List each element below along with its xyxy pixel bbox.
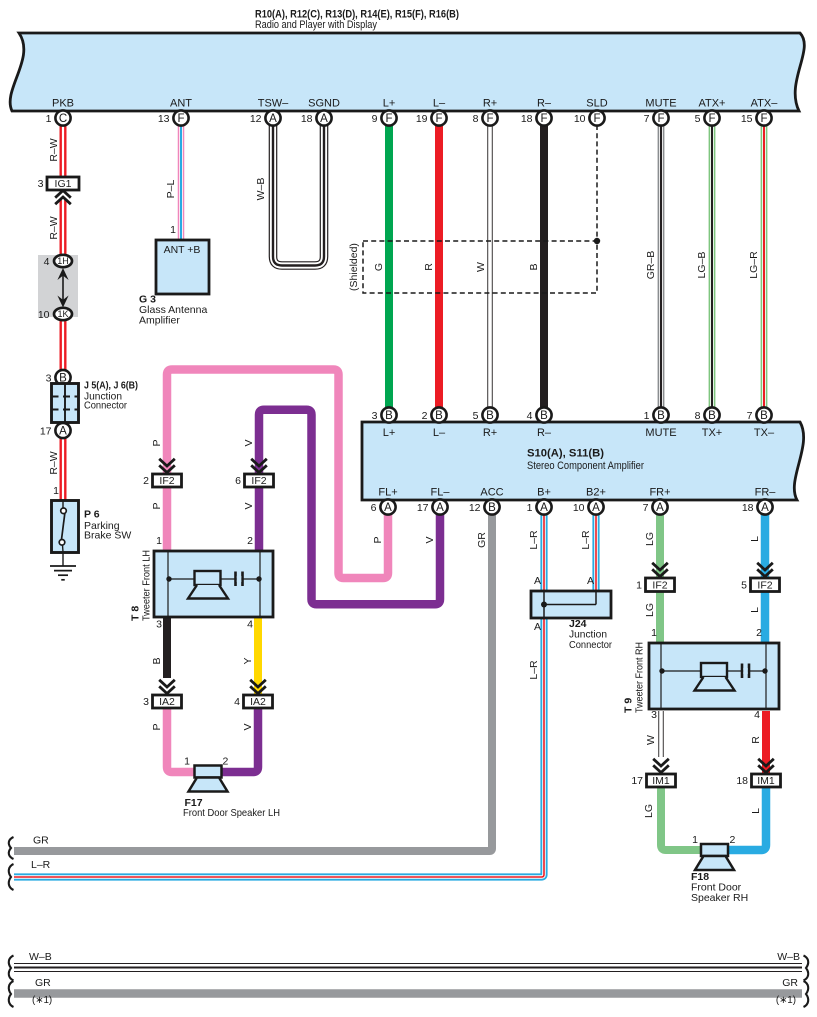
svg-text:G: G xyxy=(373,263,385,271)
svg-text:SLD: SLD xyxy=(586,98,607,110)
svg-text:5: 5 xyxy=(473,410,479,422)
svg-text:Amplifier: Amplifier xyxy=(139,315,180,327)
svg-text:12: 12 xyxy=(469,502,481,514)
svg-text:B: B xyxy=(435,410,443,422)
svg-text:IF2: IF2 xyxy=(652,580,667,592)
svg-text:18: 18 xyxy=(301,113,313,125)
svg-text:IM1: IM1 xyxy=(652,775,670,787)
svg-text:13: 13 xyxy=(158,113,170,125)
svg-text:GR: GR xyxy=(476,532,488,548)
svg-text:L–: L– xyxy=(433,427,446,439)
svg-text:6: 6 xyxy=(371,502,377,514)
svg-text:3: 3 xyxy=(38,178,44,190)
svg-text:TSW–: TSW– xyxy=(258,98,289,110)
svg-text:IF2: IF2 xyxy=(757,580,772,592)
svg-text:LG: LG xyxy=(644,532,656,546)
svg-text:19: 19 xyxy=(416,113,428,125)
svg-text:P: P xyxy=(151,723,163,730)
svg-text:10: 10 xyxy=(38,309,50,321)
svg-text:A: A xyxy=(534,575,541,587)
svg-text:10: 10 xyxy=(574,113,586,125)
svg-text:LG–B: LG–B xyxy=(696,252,708,279)
svg-text:FR–: FR– xyxy=(755,487,777,499)
svg-text:P: P xyxy=(151,439,163,446)
svg-text:FL+: FL+ xyxy=(378,487,397,499)
svg-text:B: B xyxy=(488,502,496,514)
svg-text:W–B: W–B xyxy=(777,951,800,963)
svg-text:R–: R– xyxy=(537,427,552,439)
svg-text:R–: R– xyxy=(537,98,552,110)
svg-text:2: 2 xyxy=(730,834,736,846)
svg-text:3: 3 xyxy=(651,709,657,721)
svg-text:V: V xyxy=(243,502,255,509)
svg-text:TX–: TX– xyxy=(754,427,775,439)
svg-text:SGND: SGND xyxy=(308,98,340,110)
svg-text:P 6: P 6 xyxy=(84,509,100,521)
svg-text:Radio and Player with Display: Radio and Player with Display xyxy=(255,19,377,31)
svg-text:P–L: P–L xyxy=(165,180,177,199)
svg-text:(∗1): (∗1) xyxy=(776,995,796,1006)
svg-text:Front Door Speaker LH: Front Door Speaker LH xyxy=(183,807,280,819)
svg-text:8: 8 xyxy=(473,113,479,125)
svg-text:1: 1 xyxy=(692,834,698,846)
svg-text:B: B xyxy=(540,410,548,422)
svg-text:ACC: ACC xyxy=(480,487,503,499)
svg-text:Brake SW: Brake SW xyxy=(84,530,131,542)
svg-text:F: F xyxy=(760,113,767,125)
svg-text:F: F xyxy=(593,113,600,125)
svg-text:2: 2 xyxy=(756,627,762,639)
svg-text:R–W: R–W xyxy=(48,451,60,474)
svg-text:Stereo Component Amplifier: Stereo Component Amplifier xyxy=(527,460,644,472)
svg-text:4: 4 xyxy=(247,619,253,631)
svg-text:F: F xyxy=(177,113,184,125)
svg-text:IM1: IM1 xyxy=(757,775,775,787)
svg-text:L+: L+ xyxy=(383,427,396,439)
svg-text:A: A xyxy=(587,575,594,587)
svg-text:1K: 1K xyxy=(57,309,68,319)
svg-text:L–R: L–R xyxy=(528,660,540,680)
svg-text:V: V xyxy=(242,723,254,730)
svg-text:L–: L– xyxy=(433,98,446,110)
svg-text:F: F xyxy=(385,113,392,125)
svg-text:17: 17 xyxy=(417,502,429,514)
svg-text:4: 4 xyxy=(44,256,50,268)
svg-text:15: 15 xyxy=(741,113,753,125)
svg-text:L: L xyxy=(749,536,761,542)
svg-text:A: A xyxy=(761,502,769,514)
svg-text:IG1: IG1 xyxy=(55,178,72,190)
svg-text:ATX+: ATX+ xyxy=(698,98,725,110)
svg-text:A: A xyxy=(592,502,600,514)
svg-text:IF2: IF2 xyxy=(251,475,266,487)
svg-text:7: 7 xyxy=(747,410,753,422)
svg-text:18: 18 xyxy=(736,775,748,787)
svg-text:GR–B: GR–B xyxy=(645,251,657,280)
svg-text:IF2: IF2 xyxy=(159,475,174,487)
svg-text:4: 4 xyxy=(527,410,533,422)
svg-text:A: A xyxy=(320,113,328,125)
svg-text:L+: L+ xyxy=(383,98,396,110)
svg-text:B: B xyxy=(486,410,494,422)
svg-text:GR: GR xyxy=(35,977,51,989)
svg-text:6: 6 xyxy=(235,475,241,487)
svg-text:17: 17 xyxy=(40,425,52,437)
svg-text:8: 8 xyxy=(695,410,701,422)
svg-text:B: B xyxy=(657,410,665,422)
svg-text:MUTE: MUTE xyxy=(645,98,676,110)
svg-text:B: B xyxy=(151,657,163,664)
svg-text:MUTE: MUTE xyxy=(645,427,676,439)
svg-text:1: 1 xyxy=(184,756,190,768)
svg-text:7: 7 xyxy=(644,113,650,125)
svg-text:IA2: IA2 xyxy=(250,696,266,708)
svg-text:9: 9 xyxy=(372,113,378,125)
svg-text:A: A xyxy=(436,502,444,514)
svg-text:ANT: ANT xyxy=(170,98,192,110)
svg-text:GR: GR xyxy=(33,835,49,847)
svg-text:LG: LG xyxy=(644,603,656,617)
svg-text:W: W xyxy=(645,735,657,745)
svg-text:GR: GR xyxy=(782,977,798,989)
svg-text:IA2: IA2 xyxy=(159,696,175,708)
svg-text:ANT +B: ANT +B xyxy=(164,244,201,256)
svg-text:1: 1 xyxy=(636,580,642,592)
svg-text:ATX–: ATX– xyxy=(751,98,779,110)
svg-text:F: F xyxy=(708,113,715,125)
svg-text:18: 18 xyxy=(521,113,533,125)
svg-text:B2+: B2+ xyxy=(586,487,606,499)
svg-text:L–R: L–R xyxy=(31,859,51,871)
svg-text:L–R: L–R xyxy=(528,530,540,550)
svg-text:V: V xyxy=(424,536,436,543)
svg-text:10: 10 xyxy=(573,502,585,514)
svg-text:B: B xyxy=(708,410,716,422)
svg-text:A: A xyxy=(384,502,392,514)
svg-text:1H: 1H xyxy=(57,256,69,266)
svg-text:A: A xyxy=(656,502,664,514)
svg-text:1: 1 xyxy=(170,224,176,236)
svg-text:2: 2 xyxy=(143,475,149,487)
svg-text:(∗1): (∗1) xyxy=(32,995,52,1006)
svg-text:L: L xyxy=(750,808,762,814)
svg-text:F: F xyxy=(486,113,493,125)
svg-text:1: 1 xyxy=(527,502,533,514)
svg-text:B: B xyxy=(760,410,768,422)
svg-text:A: A xyxy=(59,426,67,438)
svg-text:FR+: FR+ xyxy=(649,487,670,499)
svg-text:4: 4 xyxy=(234,696,240,708)
svg-text:Connector: Connector xyxy=(84,400,127,412)
svg-text:A: A xyxy=(540,502,548,514)
svg-text:F: F xyxy=(657,113,664,125)
svg-text:1: 1 xyxy=(651,627,657,639)
svg-text:B+: B+ xyxy=(537,487,551,499)
svg-text:Speaker RH: Speaker RH xyxy=(691,892,748,904)
svg-text:S10(A), S11(B): S10(A), S11(B) xyxy=(527,448,604,460)
svg-text:2: 2 xyxy=(422,410,428,422)
svg-text:V: V xyxy=(243,439,255,446)
svg-text:W: W xyxy=(475,262,487,272)
svg-text:P: P xyxy=(151,502,163,509)
svg-text:1: 1 xyxy=(53,485,59,497)
svg-text:PKB: PKB xyxy=(52,98,74,110)
svg-text:4: 4 xyxy=(754,709,760,721)
svg-text:L–R: L–R xyxy=(580,530,592,550)
svg-text:TX+: TX+ xyxy=(702,427,722,439)
svg-text:2: 2 xyxy=(247,535,253,547)
svg-text:R–W: R–W xyxy=(48,216,60,239)
svg-text:FL–: FL– xyxy=(431,487,451,499)
svg-text:17: 17 xyxy=(631,775,643,787)
svg-text:12: 12 xyxy=(250,113,262,125)
svg-text:B: B xyxy=(385,410,393,422)
svg-text:Connector: Connector xyxy=(569,639,612,651)
svg-text:3: 3 xyxy=(372,410,378,422)
svg-text:Tweeter Front RH: Tweeter Front RH xyxy=(634,642,646,713)
svg-text:Tweeter Front LH: Tweeter Front LH xyxy=(141,550,153,621)
svg-text:P: P xyxy=(372,536,384,543)
svg-text:R+: R+ xyxy=(483,427,497,439)
svg-text:R: R xyxy=(423,263,435,271)
svg-text:7: 7 xyxy=(643,502,649,514)
svg-text:R–W: R–W xyxy=(48,138,60,161)
svg-text:1: 1 xyxy=(46,113,52,125)
svg-text:A: A xyxy=(269,113,277,125)
svg-text:F: F xyxy=(435,113,442,125)
svg-text:3: 3 xyxy=(143,696,149,708)
svg-text:LG–R: LG–R xyxy=(748,251,760,279)
svg-text:5: 5 xyxy=(695,113,701,125)
svg-text:L: L xyxy=(749,607,761,613)
svg-text:(Shielded): (Shielded) xyxy=(348,243,360,291)
svg-text:3: 3 xyxy=(156,619,162,631)
svg-text:Y: Y xyxy=(242,657,254,664)
svg-text:18: 18 xyxy=(742,502,754,514)
svg-text:B: B xyxy=(528,263,540,270)
svg-text:F: F xyxy=(540,113,547,125)
svg-text:1: 1 xyxy=(156,535,162,547)
svg-text:1: 1 xyxy=(644,410,650,422)
svg-text:A: A xyxy=(534,621,541,633)
svg-text:LG: LG xyxy=(643,804,655,818)
svg-text:W–B: W–B xyxy=(255,178,267,201)
svg-text:5: 5 xyxy=(741,580,747,592)
svg-text:R: R xyxy=(750,736,762,744)
svg-text:R+: R+ xyxy=(483,98,497,110)
svg-text:W–B: W–B xyxy=(29,951,52,963)
svg-text:C: C xyxy=(59,113,67,125)
svg-text:2: 2 xyxy=(223,756,229,768)
